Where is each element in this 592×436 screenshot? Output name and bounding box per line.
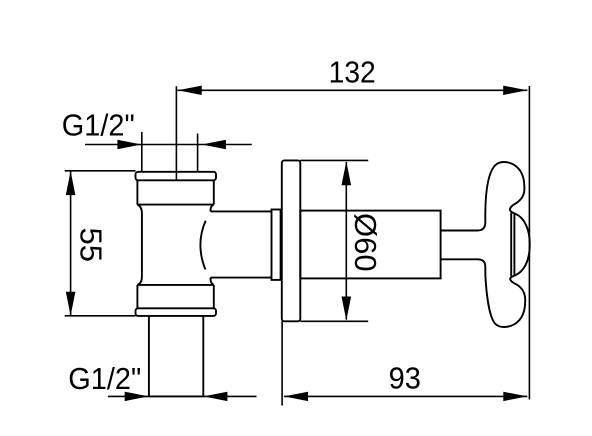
arrowhead left of dim 132 — [178, 86, 202, 95]
valve body waist left side — [137, 205, 142, 285]
svg-text:55: 55 — [73, 227, 108, 261]
horizontal pipe bottom line — [211, 277, 272, 279]
arrowhead pointing left at bottom G1/2 right — [203, 392, 227, 401]
top extension line of dim 55 — [65, 170, 136, 172]
valve body upper tube left side — [136, 180, 138, 204]
arrowhead pointing left at top G1/2 right — [202, 140, 226, 149]
arrowhead down of dim Ø60 — [342, 297, 352, 321]
centerline / left extension of dim 132 — [175, 86, 177, 180]
valve body lower ledge — [137, 284, 213, 286]
valve body upper tube right side — [213, 180, 215, 204]
valve body lower tube left side — [136, 285, 138, 308]
hub band left line — [510, 213, 512, 276]
escutcheon plate — [282, 160, 301, 321]
dimension line bottom G1/2 left tail — [108, 395, 149, 397]
collar ring — [272, 210, 281, 280]
valve body upper ledge — [137, 204, 213, 206]
right extension line (shared by dim 132 and dim 93) — [528, 86, 530, 400]
horizontal pipe top line — [211, 210, 272, 212]
svg-text:G1/2": G1/2" — [68, 361, 141, 396]
arrowhead right of dim 93 — [503, 392, 527, 401]
dimension line bottom G1/2 right tail — [203, 395, 256, 397]
valve body bottom cap — [136, 308, 217, 316]
arrowhead up of dim 55 — [66, 171, 76, 195]
arrowhead left of dim 93 — [284, 392, 308, 401]
dimension line 55 (vertical) — [70, 171, 72, 316]
bottom extension line of dim 55 — [65, 315, 136, 317]
svg-text:93: 93 — [389, 360, 421, 395]
svg-text:Ø60: Ø60 — [348, 213, 383, 272]
svg-text:G1/2": G1/2" — [62, 108, 135, 143]
left extension line of dim 93 (below escutcheon) — [281, 321, 283, 405]
arrowhead pointing right at bottom G1/2 left — [125, 392, 149, 401]
valve body lower tube right side — [213, 285, 215, 308]
bonnet cylinder — [300, 211, 440, 279]
arrowhead up of dim Ø60 — [342, 161, 352, 185]
extension line thread right (top G1/2) — [197, 134, 199, 172]
extension line thread left (top G1/2) — [141, 132, 143, 172]
top extension line of dim Ø60 — [300, 159, 368, 161]
valve body top cap — [136, 172, 217, 181]
dimension line Ø60 (vertical) — [345, 162, 347, 320]
hub band right line — [513, 214, 515, 276]
dimension line top G1/2 — [85, 144, 252, 146]
valve body waist right upper — [210, 204, 213, 211]
outlet pipe — [149, 316, 203, 397]
arrowhead pointing right at top G1/2 left — [117, 140, 141, 149]
arrowhead right of dim 132 — [503, 86, 527, 95]
intersection arc inside body — [200, 221, 205, 270]
valve body waist right lower — [210, 278, 213, 285]
svg-text:132: 132 — [329, 54, 376, 89]
arrowhead down of dim 55 — [66, 292, 76, 316]
dimension line 132 — [178, 89, 528, 91]
dimension line 93 — [284, 395, 527, 397]
handle outline with stem — [441, 162, 530, 327]
bottom extension line of dim Ø60 — [300, 320, 368, 322]
